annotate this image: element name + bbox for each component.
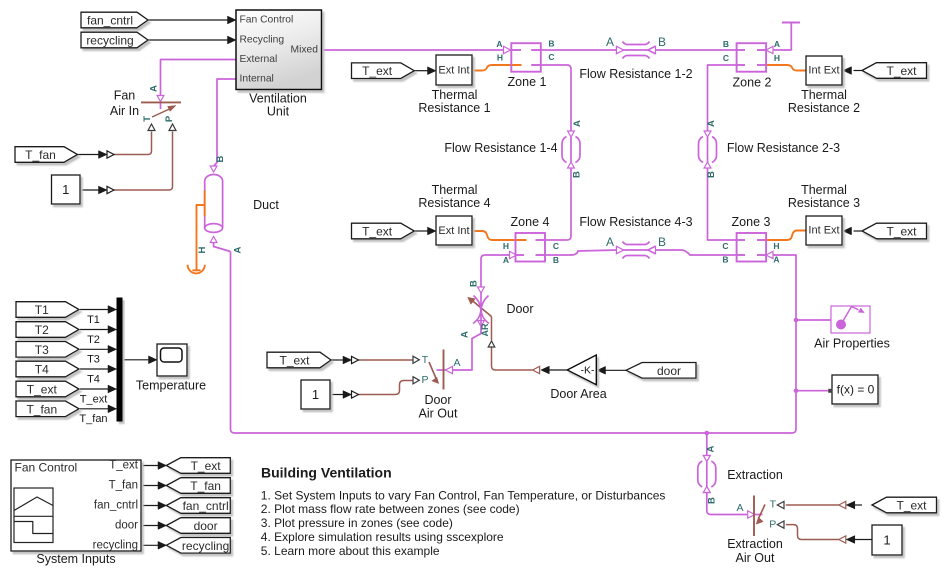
svg-text:Mixed: Mixed bbox=[291, 44, 319, 55]
svg-text:Building Ventilation: Building Ventilation bbox=[261, 465, 392, 481]
svg-text:A: A bbox=[706, 120, 717, 127]
svg-text:door: door bbox=[194, 519, 218, 533]
svg-text:A: A bbox=[736, 502, 743, 514]
svg-text:B: B bbox=[548, 39, 554, 49]
svg-text:Flow Resistance 1-4: Flow Resistance 1-4 bbox=[444, 141, 557, 155]
svg-text:recycling: recycling bbox=[182, 539, 229, 553]
svg-text:Air In: Air In bbox=[110, 104, 139, 118]
svg-text:T3: T3 bbox=[87, 354, 100, 366]
svg-text:B: B bbox=[706, 171, 717, 178]
svg-text:door: door bbox=[115, 520, 138, 532]
svg-text:1. Set System Inputs to vary F: 1. Set System Inputs to vary Fan Control… bbox=[261, 488, 666, 502]
svg-text:Internal: Internal bbox=[240, 74, 274, 85]
svg-text:C: C bbox=[723, 53, 729, 63]
svg-text:A: A bbox=[572, 120, 583, 127]
svg-text:A: A bbox=[453, 357, 460, 369]
svg-text:B: B bbox=[572, 171, 583, 178]
svg-text:Zone 3: Zone 3 bbox=[732, 215, 771, 229]
svg-text:Temperature: Temperature bbox=[136, 379, 206, 393]
svg-text:Extraction: Extraction bbox=[727, 468, 783, 482]
svg-text:fan_cntrl: fan_cntrl bbox=[183, 499, 229, 513]
svg-text:A: A bbox=[773, 255, 779, 265]
svg-text:T_ext: T_ext bbox=[886, 225, 917, 239]
svg-text:1: 1 bbox=[62, 182, 69, 197]
svg-text:T_ext: T_ext bbox=[886, 64, 917, 78]
svg-text:A: A bbox=[606, 235, 614, 249]
svg-text:Door Area: Door Area bbox=[550, 387, 606, 401]
svg-text:B: B bbox=[722, 255, 728, 265]
svg-text:Air Out: Air Out bbox=[736, 551, 775, 565]
svg-text:Unit: Unit bbox=[267, 105, 290, 119]
svg-text:Flow Resistance 1-2: Flow Resistance 1-2 bbox=[579, 67, 692, 81]
svg-text:Recycling: Recycling bbox=[240, 35, 285, 46]
svg-text:Ventilation: Ventilation bbox=[249, 92, 307, 106]
svg-text:T2: T2 bbox=[87, 334, 100, 346]
svg-text:Resistance 1: Resistance 1 bbox=[418, 101, 490, 115]
svg-text:Int Ext: Int Ext bbox=[808, 65, 839, 77]
svg-text:B: B bbox=[658, 235, 666, 249]
svg-text:Thermal: Thermal bbox=[801, 183, 847, 197]
svg-text:5. Learn more about this examp: 5. Learn more about this example bbox=[261, 544, 440, 558]
svg-text:recycling: recycling bbox=[93, 539, 138, 551]
svg-text:B: B bbox=[553, 255, 559, 265]
svg-text:fan_cntrl: fan_cntrl bbox=[94, 500, 138, 512]
svg-text:T_ext: T_ext bbox=[80, 393, 108, 405]
svg-text:T_fan: T_fan bbox=[79, 413, 107, 425]
svg-text:C: C bbox=[548, 52, 554, 62]
svg-text:Thermal: Thermal bbox=[432, 183, 478, 197]
svg-text:A: A bbox=[503, 255, 509, 265]
svg-text:Zone 1: Zone 1 bbox=[508, 75, 547, 89]
svg-text:1: 1 bbox=[312, 387, 319, 402]
svg-text:H: H bbox=[773, 241, 779, 251]
svg-text:Extraction: Extraction bbox=[727, 537, 783, 551]
svg-text:T_ext: T_ext bbox=[109, 460, 139, 472]
svg-text:Resistance 3: Resistance 3 bbox=[788, 196, 860, 210]
svg-text:T2: T2 bbox=[35, 323, 49, 337]
svg-text:Fan Control: Fan Control bbox=[15, 461, 78, 475]
svg-text:A: A bbox=[460, 331, 471, 338]
svg-text:Flow Resistance 2-3: Flow Resistance 2-3 bbox=[727, 141, 840, 155]
svg-text:H: H bbox=[503, 241, 509, 251]
svg-text:Fan Control: Fan Control bbox=[240, 15, 294, 26]
svg-text:T1: T1 bbox=[35, 303, 49, 317]
svg-text:Air Out: Air Out bbox=[419, 407, 458, 421]
svg-text:Fan: Fan bbox=[114, 89, 136, 103]
svg-text:A: A bbox=[774, 39, 780, 49]
svg-text:Duct: Duct bbox=[253, 198, 279, 212]
svg-text:fan_cntrl: fan_cntrl bbox=[87, 14, 133, 28]
svg-text:T_fan: T_fan bbox=[26, 402, 57, 416]
svg-text:Air Properties: Air Properties bbox=[814, 337, 890, 351]
svg-text:Flow Resistance 4-3: Flow Resistance 4-3 bbox=[579, 215, 692, 229]
svg-text:Zone 2: Zone 2 bbox=[733, 76, 772, 90]
svg-text:H: H bbox=[774, 53, 780, 63]
svg-text:A: A bbox=[496, 39, 502, 49]
svg-text:B: B bbox=[723, 39, 729, 49]
svg-text:B: B bbox=[707, 497, 718, 504]
svg-text:C: C bbox=[553, 241, 559, 251]
svg-text:System Inputs: System Inputs bbox=[36, 552, 115, 566]
svg-text:Resistance 4: Resistance 4 bbox=[418, 196, 490, 210]
svg-text:3. Plot pressure in zones (see: 3. Plot pressure in zones (see code) bbox=[261, 516, 453, 530]
svg-text:B: B bbox=[469, 280, 480, 287]
svg-text:H: H bbox=[197, 246, 208, 253]
svg-text:Resistance 2: Resistance 2 bbox=[788, 101, 860, 115]
svg-text:1: 1 bbox=[883, 533, 890, 548]
svg-text:T_fan: T_fan bbox=[25, 148, 56, 162]
svg-text:T1: T1 bbox=[87, 314, 100, 326]
svg-text:A: A bbox=[706, 445, 717, 452]
svg-text:T_ext: T_ext bbox=[362, 64, 393, 78]
svg-text:T: T bbox=[142, 116, 153, 122]
svg-text:T_fan: T_fan bbox=[109, 480, 138, 492]
svg-text:P: P bbox=[421, 374, 428, 386]
svg-text:T_ext: T_ext bbox=[279, 354, 310, 368]
svg-text:A: A bbox=[606, 35, 614, 49]
svg-text:T_fan: T_fan bbox=[190, 479, 221, 493]
svg-text:4. Explore simulation results: 4. Explore simulation results using ssce… bbox=[261, 530, 504, 544]
svg-text:T_ext: T_ext bbox=[896, 499, 927, 513]
svg-text:Zone 4: Zone 4 bbox=[511, 215, 550, 229]
svg-text:T3: T3 bbox=[35, 343, 49, 357]
svg-text:door: door bbox=[657, 364, 681, 378]
svg-text:Door: Door bbox=[506, 302, 533, 316]
svg-text:P: P bbox=[164, 115, 175, 122]
svg-text:T4: T4 bbox=[35, 363, 49, 377]
svg-text:C: C bbox=[722, 241, 728, 251]
svg-text:AR: AR bbox=[480, 323, 490, 336]
svg-text:T_ext: T_ext bbox=[362, 225, 393, 239]
svg-text:A: A bbox=[233, 246, 244, 253]
svg-text:Ext Int: Ext Int bbox=[438, 65, 469, 77]
svg-text:B: B bbox=[215, 155, 226, 162]
svg-text:T_ext: T_ext bbox=[191, 459, 222, 473]
svg-text:f(x) = 0: f(x) = 0 bbox=[837, 383, 875, 397]
svg-text:2. Plot mass flow rate between: 2. Plot mass flow rate between zones (se… bbox=[261, 502, 520, 516]
svg-text:P: P bbox=[769, 519, 776, 531]
svg-text:A: A bbox=[149, 85, 160, 92]
svg-text:External: External bbox=[240, 54, 278, 65]
svg-text:T: T bbox=[422, 354, 429, 366]
svg-text:T: T bbox=[770, 499, 777, 511]
svg-text:Ext Int: Ext Int bbox=[438, 225, 469, 237]
svg-text:T_ext: T_ext bbox=[27, 383, 58, 397]
svg-text:Int Ext: Int Ext bbox=[808, 225, 839, 237]
svg-text:-K-: -K- bbox=[581, 365, 596, 377]
svg-text:Door: Door bbox=[424, 393, 451, 407]
svg-text:H: H bbox=[497, 53, 503, 63]
svg-text:T4: T4 bbox=[87, 374, 100, 386]
svg-text:B: B bbox=[658, 35, 666, 49]
svg-text:recycling: recycling bbox=[86, 34, 133, 48]
